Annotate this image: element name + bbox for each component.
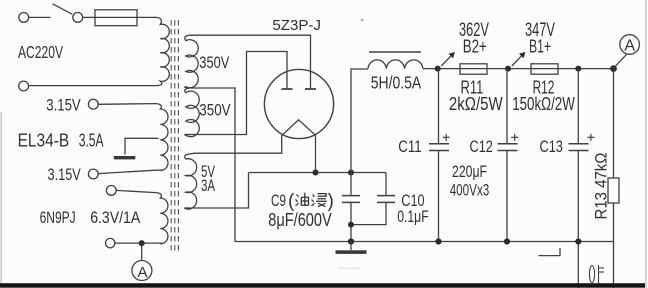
svg-text:AC220V: AC220V: [18, 42, 63, 62]
polarity + C11: [443, 134, 450, 141]
terminal 6.3V lower: [106, 238, 115, 247]
svg-text:R13 47kΩ: R13 47kΩ: [592, 153, 611, 220]
label EL34-B 3.5A: [18, 130, 104, 150]
wire: [116, 190, 156, 192]
svg-text:0.1μF: 0.1μF: [397, 207, 429, 226]
heater winding 3.15V-0-3.15V EL34: [156, 104, 169, 171]
heater winding 6.3V 6N9PJ: [156, 193, 168, 244]
wire: [29, 85, 156, 87]
anode plate left: [282, 88, 293, 90]
svg-text:400Vx3: 400Vx3: [450, 181, 490, 200]
svg-text:C11: C11: [398, 137, 421, 156]
rectifier tube 5Z3P-J envelope: [264, 69, 333, 138]
smudge: [338, 268, 359, 270]
wire filament right to B+ node: [315, 135, 317, 172]
wire 5V top to filament left: [189, 135, 282, 154]
wire 5V bottom to B+ takeoff: [189, 173, 249, 209]
center tap stub: [125, 138, 159, 154]
choke L 5H/0.5A: [368, 52, 423, 69]
wire to A: [141, 243, 143, 260]
wire HV center tap to ground bus: [188, 88, 236, 242]
svg-text:220μF: 220μF: [452, 162, 487, 181]
wire: [29, 16, 51, 18]
wire: [98, 170, 155, 173]
output stage fragment coil: [589, 265, 604, 283]
svg-text:3.5A: 3.5A: [79, 130, 104, 150]
svg-text:(: (: [288, 191, 295, 212]
junction choke takeoff: [348, 170, 354, 176]
junction B2+: [435, 66, 441, 72]
wire B+ horizontal: [249, 172, 387, 174]
label C9 (oil): [271, 191, 334, 212]
svg-text:150kΩ/2W: 150kΩ/2W: [512, 94, 575, 114]
terminal 3.15V lower: [88, 169, 98, 179]
capacitor C10: [354, 173, 395, 225]
junction C9/C10: [348, 222, 354, 228]
resistor R13: [608, 69, 619, 242]
svg-text:3.15V: 3.15V: [46, 97, 80, 115]
svg-text:350V: 350V: [199, 54, 229, 72]
svg-text:350V: 350V: [199, 102, 230, 120]
svg-text:A: A: [624, 38, 635, 55]
terminal 3.15V upper: [88, 99, 98, 109]
wire B+ riser to choke: [351, 69, 368, 173]
wire 350V bottom to left anode: [189, 52, 287, 135]
connector A bottom: [132, 261, 152, 281]
wire 350V top to right anode: [190, 35, 311, 88]
filament: [282, 120, 316, 136]
switch S contact: [73, 13, 83, 23]
terminal 6.3V upper: [106, 186, 116, 196]
wire choke to bus: [423, 68, 614, 70]
junction ground C9: [348, 238, 354, 244]
arrow B1+: [512, 52, 526, 66]
polarity + C13: [587, 134, 594, 141]
junction ground C12: [504, 238, 510, 244]
svg-text:6.3V/1A: 6.3V/1A: [90, 208, 141, 227]
svg-text:B2+: B2+: [463, 37, 487, 57]
terminal AC input bottom: [19, 81, 29, 91]
speck: [361, 19, 363, 21]
arrow B2+: [441, 52, 455, 66]
svg-text:5Z3P-J: 5Z3P-J: [272, 17, 321, 34]
svg-text:3.15V: 3.15V: [48, 166, 81, 184]
transformer primary winding AC220V: [156, 17, 170, 85]
svg-text:3A: 3A: [201, 177, 215, 195]
transformer core: [171, 20, 178, 253]
stub fragment right: [539, 248, 561, 256]
junction C13 top: [575, 66, 581, 72]
capacitor C11: [429, 69, 449, 242]
junction R13 top: [610, 65, 617, 72]
junction ground C13: [575, 238, 581, 244]
resistor R12: [531, 64, 558, 74]
svg-text:5H/0.5A: 5H/0.5A: [371, 73, 422, 93]
resistor R11: [460, 64, 487, 74]
anode plate right: [305, 88, 316, 90]
ground symbol heater CT: [114, 156, 136, 159]
junction B1+: [505, 66, 511, 72]
svg-text:8μF/600V: 8μF/600V: [268, 210, 331, 230]
svg-text:EL34-B: EL34-B: [18, 130, 70, 150]
scan edge right: [645, 0, 646, 288]
capacitor C12: [498, 69, 518, 242]
svg-text:C9: C9: [271, 191, 286, 210]
scan edge left: [1, 112, 2, 283]
fuse F: [95, 10, 137, 26]
filament winding 5V 3A: [185, 154, 197, 209]
junction ground C11: [435, 238, 441, 244]
ground bus: [235, 242, 614, 288]
connector A top: [620, 35, 640, 55]
svg-text:A: A: [138, 264, 148, 281]
capacitor C13: [569, 69, 589, 288]
svg-text:6N9PJ: 6N9PJ: [40, 208, 76, 227]
wire A connector drop: [614, 54, 627, 68]
scan bar bottom: [0, 283, 645, 288]
junction: [139, 240, 145, 246]
svg-text:C13: C13: [540, 137, 563, 156]
svg-text:2kΩ/5W: 2kΩ/5W: [449, 94, 503, 114]
ground symbol main: [336, 242, 367, 254]
wire: [83, 16, 95, 18]
capacitor C9: [342, 173, 360, 242]
HV winding 350V upper: [185, 35, 199, 88]
HV winding 350V lower: [185, 88, 200, 137]
terminal AC input top: [19, 13, 29, 23]
wire: [115, 242, 156, 244]
svg-text:B1+: B1+: [529, 37, 551, 57]
svg-text:): ): [328, 191, 334, 212]
wire: [137, 16, 156, 18]
wire: [98, 103, 155, 106]
polarity + C12: [511, 134, 518, 141]
svg-text:C12: C12: [470, 137, 493, 156]
switch S blade: [53, 4, 73, 14]
junction filament B+: [313, 170, 319, 176]
